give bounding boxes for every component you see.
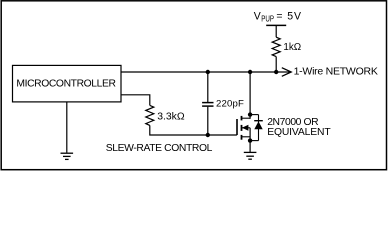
body diode D1 cathode bar [254, 120, 263, 122]
ground below microcontroller [61, 153, 74, 159]
wire: capacitor branch lower lead [207, 107, 209, 135]
svg-text:EQUIVALENT: EQUIVALENT [267, 127, 331, 138]
wire: MOSFET drain lead from bus [249, 72, 251, 119]
body diode D1 top link [250, 114, 258, 116]
junction dot: cap bottom on gate line [206, 133, 210, 137]
body diode D1 bottom link [250, 140, 258, 142]
ground below MOSFET source [244, 152, 257, 159]
svg-text:1-Wire NETWORK: 1-Wire NETWORK [294, 66, 378, 78]
wire: capacitor branch upper lead [207, 72, 209, 102]
wire: R1 bottom lead to bus [275, 57, 277, 72]
wire: microcontroller upper output to 1-Wire bus [121, 71, 290, 73]
body diode D1 vertical [258, 115, 260, 141]
svg-text:PUP: PUP [261, 14, 274, 23]
transistor Q1 channel segment drain [241, 116, 243, 121]
power rail VPUP label [254, 10, 302, 23]
junction dot: source / body-diode bottom [248, 138, 252, 142]
svg-text:3.3kΩ: 3.3kΩ [157, 112, 185, 123]
svg-text:1kΩ: 1kΩ [283, 42, 301, 53]
wire: microcontroller lower output to slew-rate resistor [121, 95, 150, 106]
svg-text:= 5V: = 5V [276, 10, 301, 22]
transistor Q1 channel segment body [241, 125, 243, 131]
wire: R2 bottom to MOSFET gate (slew-rate control line) [150, 125, 237, 135]
transistor Q1 drain connector [242, 117, 251, 119]
transistor Q1 body arrow [242, 125, 249, 131]
transistor Q1 channel segment source [241, 135, 243, 140]
capacitor C1 bottom plate [202, 105, 213, 107]
transistor Q1 source connector [242, 136, 251, 138]
junction dot: R1 on bus [274, 70, 278, 74]
body diode D1 anode triangle [254, 121, 262, 129]
transistor Q1 body connector with arrow [242, 127, 250, 129]
junction dot: drain / body-diode top [248, 112, 252, 116]
junction dot: drain branch on bus [248, 70, 252, 74]
resistor R2 3.3k zigzag [146, 105, 154, 125]
microcontroller U1 box [13, 65, 122, 102]
svg-text:MICROCONTROLLER: MICROCONTROLLER [16, 78, 115, 89]
junction dot: cap top on bus [206, 70, 210, 74]
svg-text:220pF: 220pF [216, 99, 244, 110]
transistor Q1 gate bar [236, 119, 238, 135]
power rail bar [266, 24, 286, 26]
wire: microcontroller ground lead [66, 102, 68, 153]
resistor R1 1k zigzag [272, 37, 280, 56]
svg-text:V: V [254, 10, 262, 22]
wire: rail to R1 [275, 25, 277, 37]
wire: source rail down to ground [249, 128, 251, 153]
capacitor C1 top plate [202, 102, 213, 104]
svg-text:SLEW-RATE CONTROL: SLEW-RATE CONTROL [106, 143, 213, 154]
arrow to 1-Wire network [282, 68, 291, 77]
